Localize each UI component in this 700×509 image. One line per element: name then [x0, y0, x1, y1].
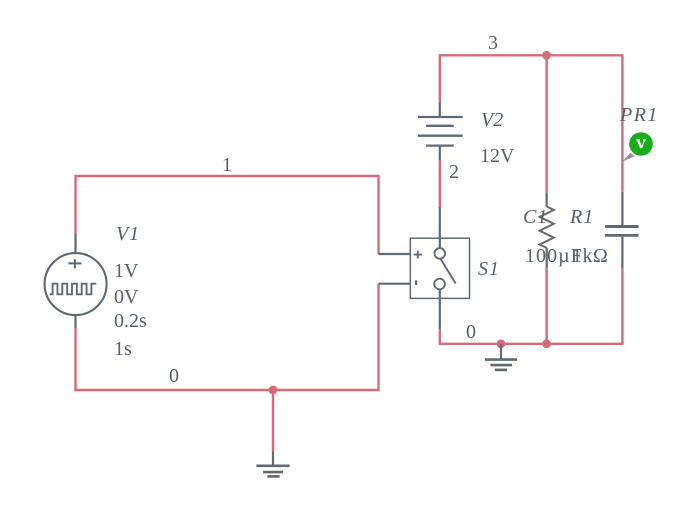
voltage source V1 clock symbol	[45, 233, 107, 328]
resistor R1	[540, 192, 554, 267]
probe PR1 green circle	[629, 132, 653, 156]
R1 refdes label	[570, 206, 594, 229]
node 1 label	[222, 154, 232, 177]
S1 blade	[441, 259, 456, 283]
ground symbol left	[256, 451, 289, 476]
V1 value label 0V	[114, 286, 138, 309]
node 2 label	[449, 161, 459, 184]
R1 value label	[572, 245, 608, 268]
S1 top pin	[439, 207, 441, 248]
V1 value label 1s	[114, 338, 132, 361]
wire switch bottom to rail	[439, 329, 441, 345]
S1 minus pin stub	[379, 283, 411, 285]
node 3 label	[488, 32, 498, 55]
V2 refdes label	[481, 109, 503, 132]
wire capacitor bottom	[621, 269, 623, 345]
wire resistor bottom	[545, 268, 547, 344]
wire node 3 resistor branch	[545, 54, 547, 192]
wire node 1 right vertical	[377, 175, 379, 254]
wire node 0 bottom rail	[74, 389, 378, 391]
V2 value label	[480, 145, 514, 168]
S1 refdes label	[478, 258, 500, 281]
S1 bottom contact circle	[434, 279, 445, 290]
capacitor C1	[605, 192, 639, 269]
V1 refdes label	[116, 223, 140, 246]
wire node 0 right vertical to S1 minus	[377, 284, 379, 392]
S1 minus terminal mark	[415, 280, 417, 285]
wire node 3 battery top	[439, 55, 441, 102]
probe PR1 tail	[622, 153, 634, 162]
S1 plus terminal mark	[414, 251, 422, 259]
battery V2	[418, 102, 463, 160]
probe PR1 V letter	[636, 140, 646, 148]
C1 refdes label	[523, 206, 548, 229]
node 0 label right	[466, 321, 476, 344]
wire node 0 bottom rail right	[440, 343, 623, 345]
node 0 label left	[169, 365, 179, 388]
wire node 1 top rail	[76, 175, 379, 177]
ground symbol right	[485, 344, 517, 370]
S1 bottom pin	[439, 289, 441, 329]
wire node 2 battery to switch	[439, 160, 441, 207]
wire node 0 left vertical from V1	[74, 328, 76, 391]
junction dot resistor bottom	[542, 339, 551, 348]
probe PR1 label	[620, 104, 659, 127]
junction dot node 3	[542, 51, 551, 60]
V1 value label 1V	[114, 260, 138, 283]
wire ground stub left	[272, 390, 274, 451]
S1 top contact circle	[435, 248, 446, 259]
C1 value label	[525, 245, 583, 268]
junction dot ground right	[497, 339, 506, 348]
junction dot node 0 left	[269, 386, 278, 395]
switch S1 box	[379, 207, 470, 329]
wire node 3 top rail	[439, 54, 623, 56]
V1 value label 0.2s	[114, 310, 147, 333]
S1 plus pin stub	[379, 253, 411, 255]
wire node 3 capacitor branch	[621, 54, 623, 192]
wire node 1 left vertical to V1	[74, 175, 76, 233]
